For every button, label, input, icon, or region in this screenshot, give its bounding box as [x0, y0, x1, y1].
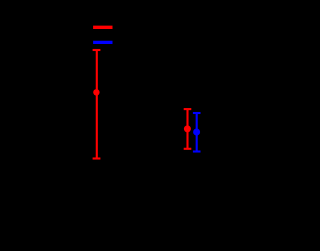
red errorbar 2 marker [184, 125, 191, 132]
blue errorbar [193, 113, 201, 152]
legend red handle [93, 26, 112, 29]
red errorbar 2 top cap [184, 108, 192, 110]
red errorbar 1 top cap [93, 49, 101, 51]
red errorbar 1 marker [93, 89, 99, 95]
red errorbar 2 bottom cap [184, 148, 192, 150]
red errorbar 1 [93, 50, 101, 159]
wire: red errorbar 1 vertical line [96, 50, 98, 159]
blue errorbar bottom cap [193, 150, 201, 152]
wire: blue errorbar vertical line [196, 113, 198, 152]
red errorbar 1 bottom cap [93, 157, 101, 159]
wire: red errorbar 2 vertical line [186, 109, 188, 149]
blue errorbar top cap [193, 112, 201, 114]
red errorbar 2 [184, 109, 192, 149]
legend blue handle [93, 41, 112, 44]
blue errorbar marker [193, 129, 200, 136]
